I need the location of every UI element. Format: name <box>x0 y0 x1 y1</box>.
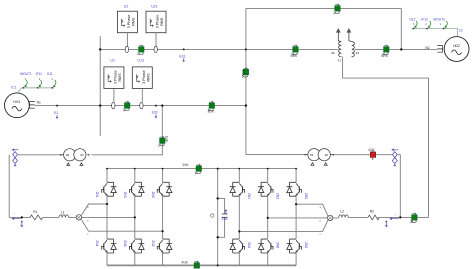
arrester symbol (left) <box>13 149 19 166</box>
IGBT T3 with diode D3 (left bridge leg2 top) <box>123 182 144 198</box>
IGBT T1R with diode (right bridge leg1 top) <box>230 182 251 199</box>
breaker 4GK on DC bottom rail <box>182 260 200 269</box>
node label E32 <box>152 105 158 118</box>
svg-text:2N2: 2N2 <box>151 240 155 246</box>
voltmeter on lower bus under U13 <box>140 102 143 109</box>
node: left three-phase tap circle <box>76 215 81 220</box>
terminal stack N1 <box>29 102 34 109</box>
transformer pair #2 #1 (left) <box>60 149 89 166</box>
svg-text:HG2: HG2 <box>453 44 460 48</box>
control inputs to HG2: G12 IF12 WOUT2 <box>409 18 445 26</box>
svg-text:WOUT1: WOUT1 <box>20 72 32 76</box>
wire: right phase C line <box>239 220 328 231</box>
junction phase A right <box>295 203 297 205</box>
svg-text:#2: #2 <box>325 153 329 157</box>
svg-text:BRK: BRK <box>291 54 298 58</box>
breaker 3GK on lower bus <box>208 101 215 114</box>
svg-text:N2: N2 <box>425 46 429 50</box>
svg-text:R2: R2 <box>370 210 374 214</box>
voltmeter on upper bus under U2 <box>125 46 128 53</box>
current meter arrow (bottom left) <box>12 212 20 220</box>
svg-text:BRK: BRK <box>381 54 388 58</box>
svg-text:4GK: 4GK <box>182 260 189 264</box>
breaker BRK feeding transformer T1 <box>291 45 299 59</box>
wire: bottom left loop to R1 L1 <box>9 216 76 218</box>
wire: DC link bottom rail y=265.4 <box>107 264 296 266</box>
junction phase B left <box>134 216 136 218</box>
junction bypass vertical / HG2 bus <box>400 48 402 50</box>
wire: bypass left vertical x=245.9 down to rectifier feeder <box>245 8 247 154</box>
wire: DC link center vertical x=217.7 <box>217 169 219 266</box>
svg-text:E31: E31 <box>179 54 185 58</box>
machine HG2 synchronous machine <box>444 37 469 62</box>
junction bottom-right loop <box>399 216 401 218</box>
transformer pair #1 #2 (right) <box>305 149 334 166</box>
junction phase A left <box>106 203 108 205</box>
capacitor C1 DC link branch <box>218 198 228 237</box>
IGBT T5 with diode D5 (left bridge leg3 top) <box>151 182 172 198</box>
svg-text:E32: E32 <box>152 111 158 115</box>
junction DC cap bottom <box>217 236 219 238</box>
voltmeter on lower bus under U1 <box>112 102 115 109</box>
svg-text:4GK: 4GK <box>368 148 375 152</box>
svg-text:WOUT2: WOUT2 <box>433 18 445 22</box>
wire: vertical from bus2 down through breaker 1GK x=162.3 <box>92 106 163 155</box>
svg-text:2N3: 2N3 <box>275 193 279 199</box>
signal hook 2 to HG2 <box>428 21 430 28</box>
wire: left transformer pair to left edge and down <box>9 155 63 218</box>
IGBT T6 with diode D6 (left bridge leg2 bottom) <box>123 239 144 253</box>
svg-text:#1: #1 <box>356 51 360 55</box>
IGBT T5R with diode (right bridge leg3 top) <box>287 182 308 199</box>
breaker 1GK on vertical feeder <box>159 136 169 147</box>
breaker BRK between T1 and HG2 <box>381 45 389 59</box>
junction DC cap top <box>217 197 219 199</box>
wire: right phase A line <box>296 204 328 216</box>
svg-text:E1: E1 <box>54 111 58 115</box>
node label below bottom-left junction <box>21 221 23 227</box>
signal hook 3 to HG1 <box>54 80 56 87</box>
wire: right phase B line <box>268 217 328 219</box>
block U21 3 Phase RMS <box>146 4 166 46</box>
svg-text:2N5: 2N5 <box>151 192 155 198</box>
svg-text:U1: U1 <box>110 59 115 63</box>
svg-text:N1: N1 <box>37 101 41 105</box>
junction lower bus end / bypass vertical <box>245 104 247 106</box>
svg-text:IF11: IF11 <box>36 72 42 76</box>
junction bypass vertical / upper bus crossing <box>245 48 247 50</box>
svg-text:1GK: 1GK <box>164 136 168 143</box>
wire: right riser from transformer T1 bottom lead <box>343 57 429 218</box>
svg-text:#1: #1 <box>310 153 314 157</box>
svg-text:#1: #1 <box>80 153 84 157</box>
resistor R2 <box>368 210 379 220</box>
phase letters left fan <box>87 207 89 236</box>
hook landing dots HG2 <box>413 28 445 30</box>
node label E31 <box>179 48 185 61</box>
terminal stack N2 <box>437 46 442 53</box>
node: right three-phase tap circle <box>328 215 333 220</box>
wire: generator HG1 output bus (y=105.6) <box>35 105 246 107</box>
label Edc with arrow <box>222 210 228 221</box>
control inputs to HG1: WOUT1 IF11 G11 <box>20 72 53 81</box>
IGBT T2R with diode (right bridge leg3 bottom) <box>287 239 308 253</box>
IGBT T2 with diode D2 (left bridge leg3 bottom) <box>151 239 172 253</box>
svg-text:L2: L2 <box>340 210 344 214</box>
block U1 3 Phase RMS <box>104 59 124 103</box>
svg-text:2N5: 2N5 <box>304 193 308 199</box>
node circle at DC capacitor <box>211 214 214 217</box>
current meter arrow (bottom right) <box>390 212 398 219</box>
transformer T1 windings <box>336 28 354 57</box>
svg-text:Edc: Edc <box>222 217 228 221</box>
junction phase C left <box>162 230 164 232</box>
svg-text:2N4: 2N4 <box>247 242 251 248</box>
breaker 4GK on bypass vertical <box>241 67 248 78</box>
left bridge leg 3 vertical segments <box>162 169 164 266</box>
fault breaker 4GK (red) on right feeder <box>368 148 375 160</box>
signal hook 1 to HG2 <box>415 21 417 28</box>
wire: right transformer pair to fault point and corner <box>331 155 401 218</box>
node label below bottom-right junction <box>385 221 387 227</box>
svg-text:T1: T1 <box>338 59 342 63</box>
junction lower bus / left vertical bus <box>99 104 101 106</box>
wire: control rail into HG1 <box>17 88 54 93</box>
svg-text:3GK: 3GK <box>208 109 215 113</box>
breaker on top bypass line <box>334 4 341 15</box>
IGBT T1 with diode D1 (left bridge leg1 top) <box>95 182 116 198</box>
wire: bottom right loop L2 R2 <box>333 216 429 219</box>
wire: DC link positive rail y=168.6 <box>107 168 296 170</box>
block U2 3 Phase RMS <box>117 4 137 46</box>
breaker 3GK on DC positive rail <box>182 163 201 174</box>
wire: control rail into HG2 <box>412 29 458 37</box>
node label E1 <box>54 105 58 119</box>
svg-text:L1: L1 <box>61 210 65 214</box>
svg-text:3GK: 3GK <box>182 163 189 167</box>
block U13 3 Phase RMS <box>132 59 152 103</box>
svg-text:HG1: HG1 <box>13 100 20 104</box>
right bridge leg 3 vertical segments <box>295 169 297 266</box>
svg-text:2N4: 2N4 <box>95 240 99 246</box>
inductor L2 <box>339 210 349 218</box>
wire: bypass right vertical x=401.3 <box>400 8 402 49</box>
wire: upper measurement bus y=49.4 <box>100 48 338 50</box>
wire: feeder to right transformer pair y=154.7 <box>246 154 308 156</box>
IGBT T3R with diode (right bridge leg2 top) <box>258 182 279 199</box>
left bridge leg 1 vertical segments <box>106 169 108 266</box>
svg-text:#2: #2 <box>66 153 70 157</box>
svg-text:R1: R1 <box>33 210 37 214</box>
junction bottom rail / center vertical <box>217 264 219 266</box>
inductor L1 <box>59 210 69 217</box>
svg-text:2N1: 2N1 <box>247 193 251 199</box>
hook landing dots HG1 <box>23 87 53 89</box>
junction bottom-left loop <box>21 216 23 218</box>
phase letters right fan <box>320 207 322 236</box>
svg-text:C2: C2 <box>459 29 463 33</box>
svg-text:#2: #2 <box>331 51 335 55</box>
IGBT T4R with diode (right bridge leg1 bottom) <box>230 239 251 253</box>
right bridge leg 2 vertical segments <box>267 169 269 266</box>
svg-text:IC1: IC1 <box>11 86 16 90</box>
junction lower bus / 1GK feeder <box>161 104 163 106</box>
svg-text:2N6: 2N6 <box>275 242 279 248</box>
svg-text:2N3: 2N3 <box>123 192 127 198</box>
svg-text:2N6: 2N6 <box>123 240 127 246</box>
IGBT T6R with diode (right bridge leg2 bottom) <box>258 239 279 253</box>
junction phase B right <box>267 217 269 219</box>
machine HG1 synchronous generator <box>5 93 30 118</box>
wire: left phase C line <box>81 219 163 231</box>
resistor R1 <box>30 210 43 220</box>
svg-text:2N2: 2N2 <box>304 242 308 248</box>
svg-text:U21: U21 <box>151 4 158 8</box>
svg-text:4GK: 4GK <box>241 70 245 77</box>
svg-text:U2: U2 <box>124 4 129 8</box>
wire: bus from transformer T1 to machine HG2 <box>355 48 437 50</box>
breaker on upper bus between meters <box>138 45 145 56</box>
breaker on bottom right loop <box>411 213 418 224</box>
wire: left phase B line <box>82 216 135 218</box>
signal hook 3 to HG2 <box>445 21 447 28</box>
svg-text:G11: G11 <box>47 72 53 76</box>
IGBT T4 with diode D4 (left bridge leg1 bottom) <box>95 239 116 253</box>
junction phase C right <box>238 230 240 232</box>
svg-text:G12: G12 <box>409 18 415 22</box>
wire: top bypass line y=8.4 <box>246 7 401 9</box>
junction rail leg tops left bridge <box>106 168 108 170</box>
right bridge leg 1 vertical segments <box>238 169 240 266</box>
signal hook 2 to HG1 <box>39 80 41 87</box>
svg-text:2N1: 2N1 <box>95 192 99 198</box>
junction rail leg tops right bridge <box>238 168 240 170</box>
svg-text:U13: U13 <box>137 59 144 63</box>
junction DC rail / center vertical <box>217 168 219 170</box>
junction upper bus / left vertical bus <box>99 48 101 50</box>
voltmeter on upper bus under U21 <box>154 46 157 53</box>
left bridge leg 2 vertical segments <box>134 169 136 266</box>
svg-text:IF12: IF12 <box>421 18 428 22</box>
signal hook 1 to HG1 <box>25 80 27 87</box>
arrester symbol (right) <box>392 149 398 166</box>
breaker on lower bus between meters <box>123 101 130 112</box>
wire: left vertical bus x=100.2 <box>99 36 101 136</box>
wire: left phase A line <box>81 204 107 216</box>
